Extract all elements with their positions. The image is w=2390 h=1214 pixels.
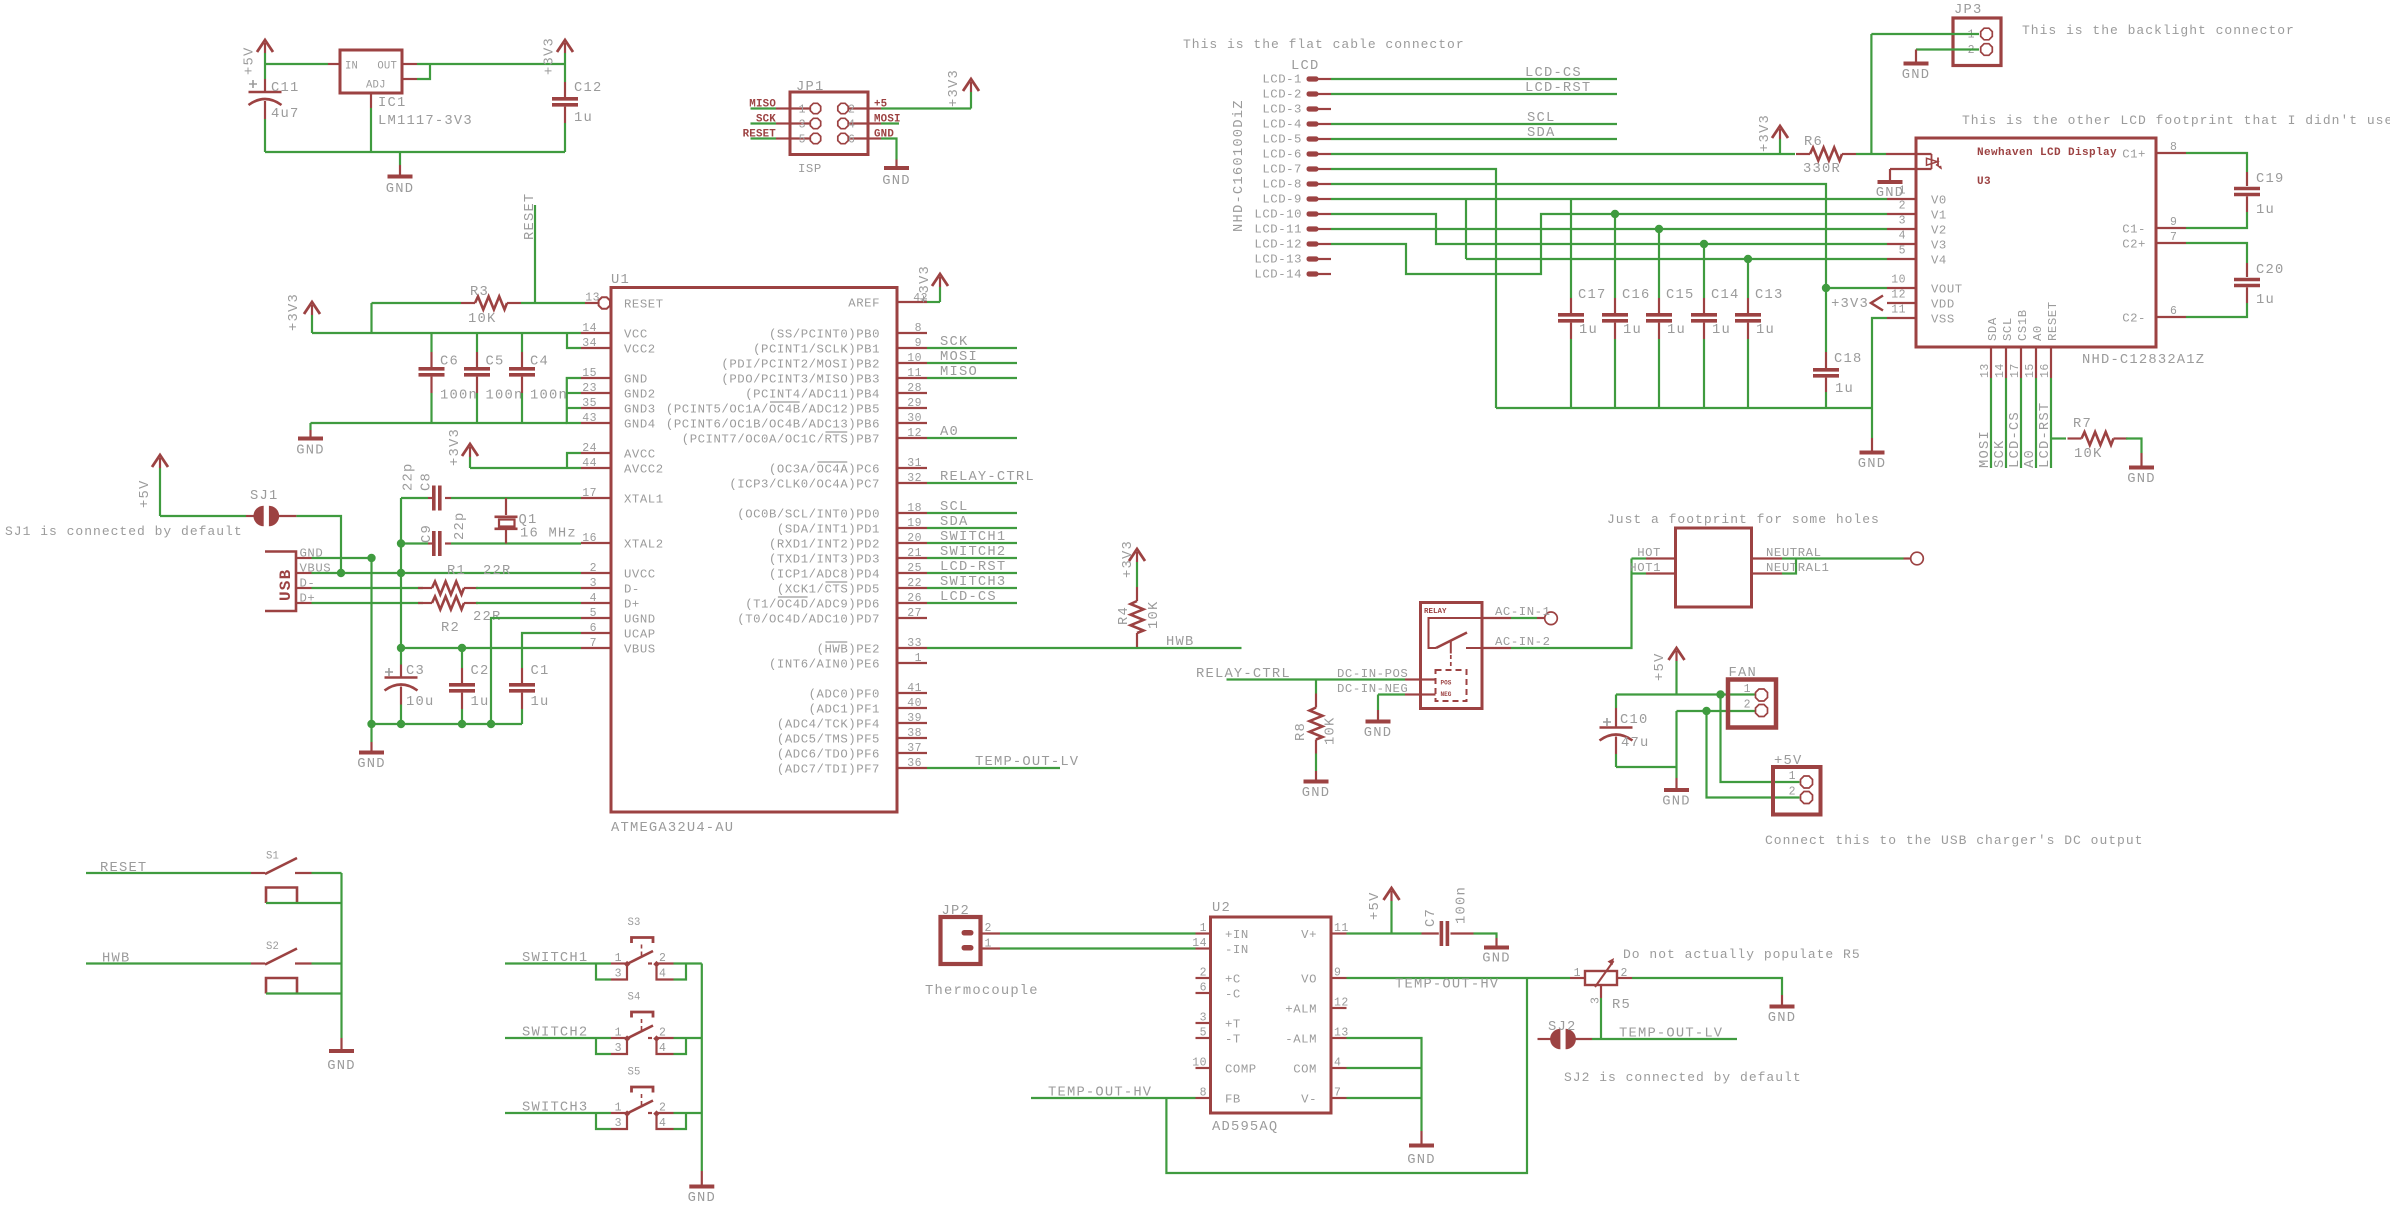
pin HOT (1646, 557, 1676, 559)
svg-text:1u: 1u (471, 695, 490, 710)
pin 6 UCAP (581, 632, 611, 634)
wire crystal-common down (400, 544, 402, 649)
pin 41 (ADC0)PF0 (897, 692, 927, 694)
svg-text:LCD-CS: LCD-CS (2008, 411, 2023, 468)
pin 13 SDA (1990, 347, 1992, 378)
svg-text:GND: GND (1364, 726, 1392, 741)
svg-text:6: 6 (590, 622, 597, 635)
svg-text:31: 31 (907, 457, 922, 470)
solder jumper SJ2 (1538, 1038, 1554, 1040)
wire S1 body to riser (266, 902, 342, 904)
svg-text:1: 1 (1200, 922, 1207, 935)
wire GND pins bracket (567, 378, 581, 423)
svg-text:3: 3 (590, 577, 597, 590)
svg-text:NHD-C160100DiZ: NHD-C160100DiZ (1231, 99, 1247, 232)
solder jumper SJ1 (246, 515, 256, 517)
wire net SCK (2005, 378, 2007, 468)
svg-text:LCD-10: LCD-10 (1254, 208, 1302, 222)
resistor R6 330R (1796, 153, 1810, 155)
svg-text:R1: R1 (447, 564, 466, 579)
power +3V3 arrow on LCD-6 net (1779, 139, 1781, 154)
pin 28 (PCINT4/ADC11)PB4 (897, 392, 927, 394)
svg-text:10K: 10K (1324, 717, 1339, 745)
svg-text:4: 4 (848, 119, 855, 132)
wire R7 to GND (2126, 439, 2142, 454)
power +3V3 arrow at AREF (939, 287, 941, 302)
svg-text:100n: 100n (486, 389, 524, 404)
svg-text:+3V3: +3V3 (287, 293, 302, 331)
power +3V3 arrow feeding AVCC (469, 457, 471, 468)
svg-text:22p: 22p (453, 512, 468, 540)
pin 5 V4 (1887, 258, 1916, 260)
svg-text:44: 44 (582, 457, 597, 470)
svg-text:4: 4 (590, 592, 597, 605)
svg-text:LCD-RST: LCD-RST (1525, 81, 1591, 96)
pin 10 COMP (1196, 1067, 1211, 1069)
ground GND at C10 (1675, 767, 1677, 778)
wire net LCD-CS (927, 602, 1017, 604)
svg-text:C3: C3 (406, 664, 425, 679)
pin relay AC-IN-2 (1482, 647, 1511, 649)
svg-text:9: 9 (1334, 967, 1341, 980)
svg-text:GND: GND (1662, 795, 1690, 810)
svg-text:+5V: +5V (243, 47, 258, 75)
svg-text:(RXD1/INT2)PD2: (RXD1/INT2)PD2 (769, 538, 880, 552)
svg-text:RELAY-CTRL: RELAY-CTRL (1196, 667, 1291, 682)
svg-text:IN: IN (345, 61, 358, 73)
pin 3 V2 (1887, 228, 1916, 230)
wire crystal caps common (400, 498, 402, 544)
wire AC-IN-2 to footprint (1511, 559, 1632, 649)
wire HWB to S2 (86, 962, 251, 964)
wire S5 pin4 link (657, 1114, 674, 1129)
svg-text:8: 8 (2170, 141, 2177, 154)
svg-text:2: 2 (1621, 967, 1628, 980)
svg-text:IC1: IC1 (378, 96, 406, 111)
svg-text:C1+: C1+ (2122, 148, 2146, 162)
wire S2 body to riser (266, 992, 342, 994)
svg-text:(ADC1)PF1: (ADC1)PF1 (809, 703, 880, 717)
wire TEMP-OUT-LV (1592, 1038, 1737, 1040)
svg-text:25: 25 (907, 562, 922, 575)
wire S4 pin3 link (596, 1038, 611, 1054)
svg-text:V-: V- (1301, 1093, 1317, 1107)
svg-text:GND: GND (1902, 68, 1930, 83)
svg-text:LCD-CS: LCD-CS (1525, 66, 1582, 81)
capacitor C14 1u (1703, 244, 1705, 298)
svg-text:1: 1 (1744, 683, 1751, 696)
wire FB feedback loop (1166, 978, 1527, 1173)
wire SCK net stub (751, 122, 777, 124)
svg-text:TEMP-OUT-HV: TEMP-OUT-HV (1048, 1086, 1152, 1101)
wire R8 to GND (1315, 754, 1317, 772)
wire JP3 pin2 to GND (1916, 48, 1979, 50)
ground GND at JP3 (1915, 50, 1917, 64)
pin 40 (ADC1)PF1 (897, 707, 927, 709)
svg-text:AD595AQ: AD595AQ (1212, 1120, 1278, 1135)
svg-text:GND: GND (1407, 1153, 1435, 1168)
wire ADJ down to rail (370, 108, 372, 152)
resistor R4 10K pullup (1136, 587, 1138, 601)
svg-text:V4: V4 (1931, 254, 1947, 268)
svg-text:10K: 10K (468, 312, 496, 327)
resistor R8 10K pulldown (1315, 680, 1317, 694)
pin 1 V0 (1887, 198, 1916, 200)
capacitor C11 4u7 (264, 64, 266, 79)
pin 36 (ADC7/TDI)PF7 (897, 767, 927, 769)
capacitor C6 100n (430, 333, 432, 352)
wire FAN2 to +5V connector pin2 (1707, 711, 1800, 798)
svg-text:14: 14 (1192, 937, 1207, 950)
svg-text:OUT: OUT (377, 61, 397, 73)
svg-text:AC-IN-1: AC-IN-1 (1495, 605, 1551, 619)
pin 21 (TXD1/INT3)PD3 (897, 557, 927, 559)
svg-text:21: 21 (907, 547, 922, 560)
svg-text:12: 12 (907, 427, 922, 440)
svg-text:1: 1 (615, 952, 622, 965)
pin 23 GND2 (581, 392, 611, 394)
svg-text:9: 9 (2170, 216, 2177, 229)
svg-text:VO: VO (1301, 973, 1317, 987)
pin 5 UGND (581, 617, 611, 619)
svg-text:(HWB)PE2: (HWB)PE2 (817, 643, 880, 657)
wire net SCL (927, 512, 1017, 514)
svg-text:22p: 22p (402, 463, 417, 491)
svg-text:1: 1 (915, 652, 922, 665)
svg-text:(ADC5/TMS)PF5: (ADC5/TMS)PF5 (777, 733, 880, 747)
wire UCAP pin6 to C1 (522, 633, 581, 648)
svg-text:+3V3: +3V3 (448, 428, 463, 466)
svg-text:34: 34 (582, 337, 597, 350)
ground GND at U2 (1420, 1131, 1422, 1146)
resistor R3 10K (461, 302, 475, 304)
wire S4 pin4 link (657, 1039, 674, 1054)
wire AVCC bracket (567, 453, 581, 468)
svg-text:2: 2 (590, 562, 597, 575)
svg-text:16 MHz: 16 MHz (520, 527, 577, 542)
svg-text:VOUT: VOUT (1931, 283, 1963, 297)
svg-text:XTAL1: XTAL1 (624, 493, 664, 507)
svg-text:10: 10 (907, 352, 922, 365)
svg-text:AVCC2: AVCC2 (624, 463, 664, 477)
pin U3 GND with ground symbol (1890, 168, 1932, 170)
svg-text:17: 17 (582, 487, 597, 500)
svg-text:GND: GND (624, 373, 648, 387)
power +3V3 arrow at JP1 (970, 92, 972, 109)
svg-text:7: 7 (1334, 1087, 1341, 1100)
wire net LCD-RST (2050, 378, 2052, 468)
pin 37 (ADC6/TDO)PF6 (897, 752, 927, 754)
pin 34 VCC2 (581, 347, 611, 349)
pin 8 (SS/PCINT0)PB0 (897, 332, 927, 334)
wire net SCK (927, 347, 1017, 349)
svg-text:S2: S2 (266, 941, 279, 953)
svg-text:(SS/PCINT0)PB0: (SS/PCINT0)PB0 (769, 328, 880, 342)
svg-text:(PCINT6/OC1B/OC4B/ADC13)PB6: (PCINT6/OC1B/OC4B/ADC13)PB6 (666, 418, 880, 432)
wire FB TEMP-OUT-HV row (1031, 1097, 1196, 1099)
svg-text:C20: C20 (2256, 263, 2284, 278)
svg-text:5: 5 (1899, 245, 1906, 258)
capacitor C4 100n (521, 333, 523, 352)
svg-text:7: 7 (590, 637, 597, 650)
svg-text:10: 10 (1891, 274, 1906, 287)
svg-text:1: 1 (799, 104, 806, 117)
svg-text:Newhaven LCD Display: Newhaven LCD Display (1977, 147, 2117, 159)
svg-text:TEMP-OUT-HV: TEMP-OUT-HV (1395, 978, 1499, 993)
svg-text:(ADC4/TCK)PF4: (ADC4/TCK)PF4 (777, 718, 880, 732)
pin USB D- (296, 587, 312, 589)
svg-text:17: 17 (2009, 363, 2022, 378)
svg-text:1u: 1u (1667, 323, 1686, 338)
ground GND at R7 (2140, 453, 2142, 468)
svg-text:GND: GND (386, 182, 414, 197)
pin 15 A0 (2035, 347, 2037, 378)
wire R5 pin2 to GND (1632, 978, 1782, 995)
wire S2 to GND riser (312, 962, 342, 964)
svg-text:(ICP3/CLK0/OC4A)PC7: (ICP3/CLK0/OC4A)PC7 (729, 478, 880, 492)
pin 16 XTAL2 (581, 542, 611, 544)
svg-text:V+: V+ (1301, 928, 1317, 942)
svg-text:SWITCH2: SWITCH2 (522, 1026, 588, 1041)
wire C7 to GND (1474, 934, 1497, 939)
wire S3 pin3 link (596, 964, 611, 980)
junction FAN2 (1702, 707, 1710, 715)
svg-text:11: 11 (907, 367, 922, 380)
wire GND rail under IC1 (265, 151, 565, 153)
pin 10 VOUT (1887, 287, 1916, 289)
svg-text:VCC: VCC (624, 328, 648, 342)
svg-text:C1: C1 (531, 664, 550, 679)
svg-text:2: 2 (1744, 699, 1751, 712)
svg-text:A0: A0 (940, 425, 959, 440)
svg-text:15: 15 (582, 367, 597, 380)
svg-text:C9: C9 (420, 524, 435, 543)
pin LED backlight anode (1886, 153, 1932, 155)
ground GND for USB area (370, 724, 372, 742)
svg-text:C2+: C2+ (2122, 238, 2146, 252)
svg-text:+3V3: +3V3 (1758, 114, 1773, 152)
wire V4 row (1466, 258, 1887, 260)
wire LCD-5 SDA (1331, 138, 1617, 140)
wire net LCD-CS (2020, 378, 2022, 468)
capacitor C12 1u (564, 64, 566, 82)
svg-text:16: 16 (2039, 363, 2052, 378)
svg-text:12: 12 (1891, 289, 1906, 302)
svg-text:29: 29 (907, 397, 922, 410)
pin 4 COM (1331, 1067, 1347, 1069)
svg-text:This is the other LCD footprin: This is the other LCD footprint that I d… (1962, 113, 2390, 128)
wire C10 top to FAN (1616, 693, 1755, 695)
wire VOUT pin to riser (1826, 287, 1887, 289)
pin 26 (T1/OC4D/ADC9)PD6 (897, 602, 927, 604)
svg-text:SWITCH2: SWITCH2 (940, 545, 1006, 560)
svg-text:VSS: VSS (1931, 313, 1955, 327)
svg-text:LCD-12: LCD-12 (1254, 238, 1302, 252)
svg-text:RELAY: RELAY (1424, 608, 1447, 616)
wire net A0 (927, 437, 1017, 439)
svg-text:10K: 10K (1147, 601, 1162, 629)
capacitor C8 22p (428, 497, 434, 499)
pin 9 C1- (2156, 227, 2186, 229)
svg-text:1u: 1u (2256, 293, 2275, 308)
svg-text:35: 35 (582, 397, 597, 410)
wire net SWITCH1 (505, 962, 611, 964)
svg-text:C19: C19 (2256, 172, 2284, 187)
svg-text:28: 28 (907, 382, 922, 395)
svg-text:33: 33 (907, 637, 922, 650)
pin 27 (T0/OC4D/ADC10)PD7 (897, 617, 927, 619)
svg-text:RESET: RESET (523, 193, 538, 240)
svg-text:2: 2 (1200, 967, 1207, 980)
ground GND at relay coil (1377, 695, 1379, 711)
wire JP2 pin2 to +IN (981, 932, 1001, 934)
svg-text:C16: C16 (1622, 288, 1650, 303)
svg-text:LCD-9: LCD-9 (1262, 193, 1302, 207)
pin 3 D- (581, 587, 611, 589)
capacitor C18 1u (1825, 352, 1827, 368)
wire MISO net stub (751, 107, 777, 109)
pin 7 V- (1331, 1097, 1347, 1099)
junction FAN1 (1716, 690, 1724, 698)
svg-text:XTAL2: XTAL2 (624, 538, 664, 552)
wire +5V to IC1 IN (265, 63, 328, 65)
pin 9 VO (1331, 977, 1347, 979)
ground GND at C7 (1495, 938, 1497, 948)
svg-text:23: 23 (582, 382, 597, 395)
svg-text:LCD-2: LCD-2 (1262, 88, 1302, 102)
wire net SWITCH2 (505, 1037, 611, 1039)
svg-text:(ADC0)PF0: (ADC0)PF0 (809, 688, 880, 702)
svg-text:2: 2 (1899, 200, 1906, 213)
svg-text:POS: POS (1441, 680, 1452, 687)
junction C16 (1611, 210, 1619, 218)
wire VBUS pin7 row (401, 647, 581, 649)
svg-text:SCL: SCL (1527, 111, 1555, 126)
svg-text:VDD: VDD (1931, 298, 1955, 312)
pin USB VBUS (296, 572, 312, 574)
footprint for holes box (1676, 528, 1752, 607)
svg-text:R4: R4 (1117, 606, 1132, 625)
svg-text:(T0/OC4D/ADC10)PD7: (T0/OC4D/ADC10)PD7 (737, 613, 880, 627)
pin 1 +IN (1196, 932, 1211, 934)
svg-text:UCAP: UCAP (624, 628, 656, 642)
svg-text:3: 3 (1200, 1012, 1207, 1025)
svg-text:This is the flat cable connect: This is the flat cable connector (1183, 37, 1465, 52)
svg-text:1: 1 (1574, 967, 1581, 980)
svg-text:LCD-3: LCD-3 (1262, 103, 1302, 117)
svg-text:100n: 100n (530, 389, 568, 404)
pin 13 -ALM (1331, 1037, 1347, 1039)
wire FAN1 to +5V connector pin1 (1721, 695, 1800, 783)
svg-text:-T: -T (1225, 1033, 1241, 1047)
svg-text:3: 3 (799, 119, 806, 132)
svg-text:This is the backlight connecto: This is the backlight connector (2022, 23, 2295, 38)
wire net MOSI (1990, 378, 1992, 468)
svg-text:D+: D+ (624, 598, 640, 612)
wire net SWITCH2 (927, 557, 1017, 559)
pin 10 (PDI/PCINT2/MOSI)PB2 (897, 362, 927, 364)
pin 12 +ALM (1331, 1007, 1347, 1009)
capacitor C20 1u (2186, 243, 2247, 263)
svg-text:2: 2 (1789, 786, 1796, 799)
svg-text:6: 6 (1200, 982, 1207, 995)
pin HOT1 (1646, 572, 1676, 574)
wire TEMP-OUT-LV from pin 36 (927, 767, 1060, 769)
svg-text:LCD-7: LCD-7 (1262, 163, 1302, 177)
svg-text:5: 5 (799, 134, 806, 147)
svg-text:47u: 47u (1621, 736, 1649, 751)
svg-text:SWITCH3: SWITCH3 (522, 1101, 588, 1116)
svg-text:10K: 10K (2074, 447, 2102, 462)
svg-text:Thermocouple: Thermocouple (925, 983, 1039, 999)
svg-text:JP3: JP3 (1954, 3, 1982, 18)
capacitor C17 1u (1570, 199, 1572, 298)
svg-text:(INT6/AIN0)PE6: (INT6/AIN0)PE6 (769, 658, 880, 672)
capacitor C15 1u (1658, 229, 1660, 298)
svg-text:1u: 1u (1623, 323, 1642, 338)
wire ADJ tap to OUT (417, 64, 430, 79)
resistor R2 22R (312, 602, 424, 604)
wire GND pin6 down (868, 137, 881, 139)
ground GND at JP1 (895, 160, 897, 169)
svg-text:USB: USB (277, 569, 295, 601)
pin 18 (OC0B/SCL/INT0)PD0 (897, 512, 927, 514)
wire GND rail under LCD caps (1496, 407, 1872, 409)
wire VO TEMP-OUT-HV (1347, 977, 1571, 979)
svg-text:U2: U2 (1212, 901, 1231, 916)
svg-text:(ADC6/TDO)PF6: (ADC6/TDO)PF6 (777, 748, 880, 762)
svg-text:DC-IN-POS: DC-IN-POS (1337, 667, 1408, 681)
svg-text:GND: GND (296, 444, 324, 459)
svg-text:NEUTRAL1: NEUTRAL1 (1766, 561, 1829, 575)
wire net SWITCH3 (505, 1112, 611, 1114)
svg-text:5: 5 (1200, 1027, 1207, 1040)
svg-text:+T: +T (1225, 1018, 1241, 1032)
wire VSS to GND rail (1872, 318, 1887, 408)
svg-text:5: 5 (590, 607, 597, 620)
svg-text:R6: R6 (1804, 135, 1823, 150)
capacitor C2 1u (461, 648, 463, 668)
wire V0-V4 crossover riser (1465, 199, 1467, 259)
svg-text:1: 1 (615, 1027, 622, 1040)
wire AREF to +3V3 (927, 301, 940, 303)
IC U3 Newhaven LCD display (1916, 138, 2156, 347)
svg-text:A0: A0 (2023, 449, 2038, 468)
svg-text:HWB: HWB (102, 952, 130, 967)
svg-text:100n: 100n (1455, 886, 1470, 924)
svg-text:C8: C8 (420, 472, 435, 491)
pin 12 (PCINT7/OC0A/OC1C/RTS)PB7 (897, 437, 927, 439)
svg-text:NEG: NEG (1441, 691, 1452, 698)
wire RESET net label riser (534, 205, 536, 303)
wire S1 to GND riser (312, 872, 342, 874)
capacitor C19 1u (2186, 153, 2247, 172)
svg-text:(OC3A/OC4A)PC6: (OC3A/OC4A)PC6 (769, 463, 880, 477)
svg-text:37: 37 (907, 742, 922, 755)
wire R3 junction riser (370, 303, 372, 333)
wire -ALM COM V- to GND (1347, 1038, 1422, 1131)
wire LCD-8 to VOUT/C18 (1331, 184, 1826, 352)
svg-text:C2: C2 (471, 664, 490, 679)
svg-text:NHD-C12832A1Z: NHD-C12832A1Z (2082, 353, 2205, 368)
IC1 voltage regulator LM1117-3V3 (340, 50, 402, 93)
svg-text:1u: 1u (531, 695, 550, 710)
svg-text:V3: V3 (1931, 239, 1947, 253)
junction C14 (1700, 240, 1708, 248)
svg-text:+3V3: +3V3 (1831, 297, 1869, 312)
svg-text:8: 8 (1200, 1087, 1207, 1100)
power +5V arrow at FAN (1675, 661, 1677, 695)
